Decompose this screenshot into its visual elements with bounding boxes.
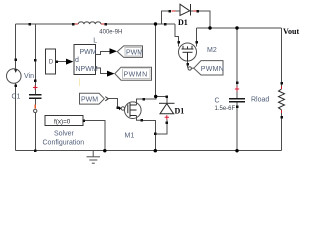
diode D1 bottom [159,103,175,114]
ground symbol [87,151,101,164]
wire top rail left [16,23,75,25]
wire M2 right lead up to right rail [196,28,198,42]
wire C1 column [34,24,36,94]
capacitor C1 port circle [34,109,37,112]
M1 source lead [137,116,142,121]
M1 drain lead [137,99,144,105]
svg-text:Configuration: Configuration [43,140,85,147]
node solver ground at bottom rail [103,149,106,152]
capacitor C1 plates [29,95,42,99]
svg-text:PWMN: PWMN [124,71,148,78]
svg-text:Vin: Vin [24,73,34,80]
port squares [15,10,283,152]
svg-text:PWM: PWM [81,96,98,103]
diode D1 top red leads [172,10,197,12]
wire M1 drain column [155,24,157,97]
resistor Rload zigzag [279,89,285,110]
svg-text:M2: M2 [207,47,217,54]
wire PWM block top output [96,51,110,54]
node M1 drain to bottom diode [154,95,157,98]
capacitor C plates [229,99,245,102]
mosfet M2 [179,43,197,61]
svg-text:L: L [93,38,97,45]
bottom diode plus mark [165,115,169,119]
small arrow after tag [105,97,108,101]
from tag PWMN at M2 gate [194,61,224,75]
svg-text:Solver: Solver [54,131,75,138]
wire left vertical Vin column [15,24,17,69]
Vin top arrowhead [14,69,17,73]
svg-text:PWM: PWM [126,49,143,56]
svg-text:PWMN: PWMN [201,66,224,73]
solver configuration block [45,116,83,126]
arrowhead to goto PWM [110,48,118,54]
svg-text:D1: D1 [175,107,185,116]
svg-text:PWM: PWM [80,49,97,56]
svg-text:C1: C1 [12,93,21,100]
wire Vin top lead [15,24,17,70]
node M1 source at bottom rail [154,149,157,152]
svg-text:NPWM: NPWM [76,66,98,73]
node switch column at top rail [154,22,157,25]
wire node to bottom diode cathode [156,97,167,104]
wire D to PWM block [55,61,66,63]
wire rail jog down to M2 left lead [175,24,179,42]
junction dots [103,22,239,152]
wire PWM block bottom output [96,68,108,74]
svg-text:d: d [75,57,79,64]
wire top diode right to rail [198,11,211,28]
svg-text:1.5e-6F: 1.5e-6F [215,106,236,112]
wire Rload column [281,28,283,86]
goto tag PWMN [115,67,152,80]
voltage source Vin circle [7,69,22,84]
wire tag to M1 gate [109,99,120,109]
node diode output at right rail [208,26,211,29]
wire M1 drain to column [144,97,157,100]
inductor L coil [78,22,101,24]
C plus mark [235,87,239,91]
arrowhead into PWM block [66,59,73,65]
goto tag PWM [117,46,143,58]
inductor red leads [75,23,104,25]
wire top rail right [197,27,282,29]
wire top diode left vertical [162,11,170,24]
node C top at right rail [235,26,238,29]
C1 plus mark [33,85,38,89]
svg-text:D: D [49,58,54,65]
yellow tick annotation [79,79,81,87]
arrowhead to goto PWMN [107,71,115,77]
node C bottom at bottom rail [235,149,238,152]
svg-text:D1: D1 [178,18,188,27]
wire bottom rail [16,150,282,152]
wire solver configuration to ground rail [83,121,105,151]
svg-text:Vout: Vout [283,27,299,36]
svg-text:M1: M1 [125,132,135,139]
svg-text:f(x)=0: f(x)=0 [54,118,71,125]
mosfet M1 [125,102,142,119]
svg-text:400e-9H: 400e-9H [99,29,122,35]
wire diode D1 top lead stubs [176,10,194,12]
Rload red leads [281,86,283,113]
arrowhead into M1 gate [119,106,121,110]
svg-text:Rload: Rload [251,97,269,104]
constant block D [46,49,56,74]
PWM generator block [74,45,96,75]
wire M1 source down to bottom rail [142,120,156,150]
wire C output column [236,28,238,98]
svg-text:C: C [215,97,220,104]
from tag PWM at M1 gate [80,93,105,104]
capacitor C1 orange lead [34,105,36,109]
M2 gate lead [187,61,189,65]
wire bottom diode anode down and left [155,120,167,134]
diode D1 top [180,4,190,15]
